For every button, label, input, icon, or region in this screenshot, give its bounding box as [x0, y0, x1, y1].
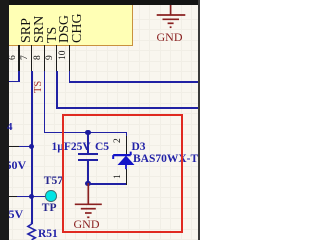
- pin name CHG: [72, 13, 83, 43]
- wire left pin to TP pad: [17, 196, 47, 198]
- pin name TS: [47, 27, 58, 43]
- diode D3 schottky cathode bar: [111, 150, 137, 172]
- label T57: [44, 177, 63, 185]
- value label 25V (clipped by window edge): [3, 210, 24, 219]
- pin name SRP: [21, 18, 32, 43]
- pin name DSG: [59, 15, 70, 43]
- wire pin10 vertical: [69, 71, 71, 84]
- red selection box: [62, 114, 183, 233]
- GND label (top): [157, 33, 183, 42]
- capacitor C5 top plate: [78, 153, 98, 155]
- designator R51: [38, 230, 58, 239]
- wire corner into D3 pin2: [126, 132, 128, 137]
- wire TS horizontal rail: [44, 132, 128, 134]
- part number BAS70WX-TP: [133, 155, 205, 164]
- ground symbol (bottom, inside red box): [73, 183, 105, 220]
- pin number 7: [21, 55, 29, 60]
- pin number 2 (rotated): [114, 138, 122, 143]
- pin 6 stub: [18, 45, 19, 71]
- pin 9 stub: [56, 45, 57, 71]
- testpoint TP pad (cyan): [45, 190, 57, 202]
- designator C5: [95, 143, 109, 152]
- pin number 8: [34, 55, 42, 60]
- left hidden pin (testpoint net) black part: [9, 196, 17, 198]
- wire pin9 vertical: [56, 71, 58, 109]
- pin number 6: [9, 55, 17, 60]
- pin number 1 (rotated): [114, 175, 122, 180]
- pin number 10: [59, 51, 67, 61]
- net label TS (red, rotated): [34, 81, 43, 93]
- connector U? body (yellow): [9, 0, 133, 46]
- junction at pin7 wire / TP net: [29, 194, 34, 199]
- capacitor C5 drop wire bottom: [87, 161, 89, 185]
- net label 4 (blue): [7, 123, 13, 132]
- pin 8 stub: [44, 45, 45, 71]
- designator D3: [132, 143, 146, 152]
- value label 1uF25V: [52, 143, 91, 152]
- value label 50V (clipped by window edge): [6, 161, 27, 170]
- wire from left pin to pin7 wire: [19, 146, 32, 148]
- diode D3 pin 2 (black): [126, 136, 127, 154]
- junction on TS rail: [85, 130, 90, 135]
- resistor R51 zigzag: [24, 222, 40, 240]
- diode D3 pin 1 (black): [126, 169, 127, 185]
- window chrome: left strip: [0, 0, 9, 240]
- pin 7 stub: [31, 45, 32, 71]
- capacitor C5 bottom plate: [78, 159, 98, 161]
- pin name SRN: [34, 16, 45, 43]
- GND label (bottom): [74, 220, 100, 229]
- bottom rail wire to D3 pin1: [87, 183, 127, 185]
- capacitor C5 drop wire top: [87, 133, 89, 154]
- wire stub to top ground: [170, 1, 172, 6]
- wire pin6 horizontal to left edge: [9, 81, 20, 83]
- left hidden pin (net to junction at 146) black part: [9, 146, 20, 148]
- wire pin6 vertical: [18, 71, 20, 83]
- window chrome: right border: [198, 0, 200, 240]
- pin number 9: [46, 55, 54, 60]
- junction at bottom rail: [85, 181, 90, 186]
- wire pin8 vertical (TS net): [44, 71, 46, 134]
- wire pin9 horizontal to right: [56, 107, 198, 109]
- window chrome: top band: [0, 0, 200, 5]
- grid lines: [12, 0, 13, 240]
- wire pin10 horizontal to right: [69, 81, 198, 83]
- label TP: [42, 204, 57, 212]
- pin 10 stub: [69, 45, 70, 71]
- wire pin7 vertical long: [31, 71, 33, 225]
- junction at pin7/left pin: [29, 144, 34, 149]
